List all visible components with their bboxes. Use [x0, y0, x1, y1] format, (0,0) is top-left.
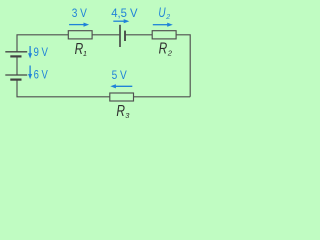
wire: bottom-left segment [17, 80, 110, 97]
voltage arrow for 3 V (right) [69, 23, 89, 27]
svg-text:2: 2 [167, 49, 173, 58]
voltage arrow for U2 (right) [153, 23, 173, 27]
wire: bottom-right segment [134, 96, 191, 98]
wire: top-right corner and right side [176, 35, 190, 97]
wire: top middle segment R1 to battery [92, 34, 119, 36]
resistor R2 [152, 31, 176, 39]
wire: between battery cells [16, 57, 18, 75]
svg-text:2: 2 [165, 14, 170, 21]
svg-text:1: 1 [83, 49, 87, 58]
voltage arrow for 4,5 V (right) [113, 19, 129, 23]
resistor R1 [68, 31, 92, 39]
svg-text:5 V: 5 V [112, 70, 127, 82]
wire: top segment battery to R2 [126, 34, 153, 36]
svg-text:R: R [159, 40, 168, 57]
svg-text:9 V: 9 V [34, 47, 49, 59]
svg-text:6 V: 6 V [34, 70, 48, 82]
label U2 [158, 5, 170, 21]
battery cell B3 (4,5 V) [120, 25, 125, 47]
svg-text:4,5 V: 4,5 V [111, 8, 138, 20]
voltage arrow for 6 V (down) [28, 66, 32, 80]
battery cell B2 (6 V) [5, 75, 27, 80]
label R3 [116, 103, 130, 120]
voltage arrow for 9 V (down) [28, 46, 32, 59]
svg-text:U: U [158, 5, 165, 20]
resistor R3 [110, 93, 134, 101]
svg-text:R: R [116, 103, 125, 120]
label R1 [75, 41, 87, 58]
label R2 [159, 40, 173, 57]
battery cell B1 (9 V) [5, 52, 27, 57]
voltage arrow for 5 V (left) [110, 84, 132, 88]
wire: left + top-left segment to R1 [17, 35, 68, 52]
svg-text:3 V: 3 V [72, 8, 87, 20]
